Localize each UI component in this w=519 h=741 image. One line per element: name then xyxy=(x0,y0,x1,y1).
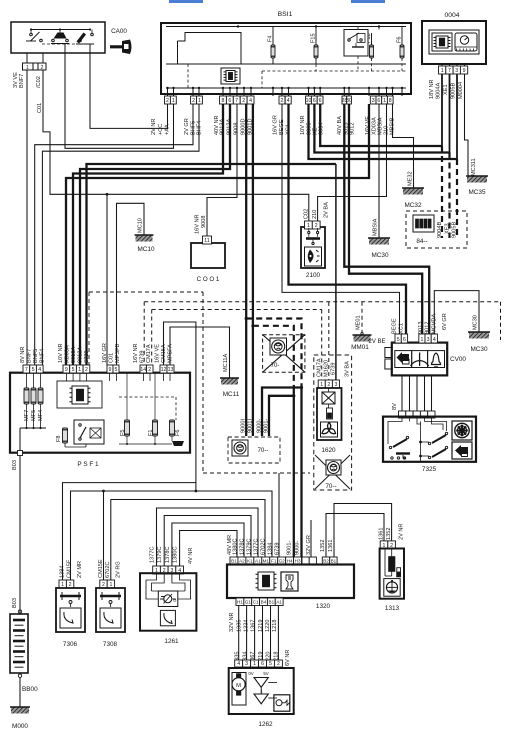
PSF1 fuse MF7 xyxy=(24,388,29,404)
PSF1 internal bus xyxy=(20,427,46,429)
svg-text:9005B: 9005B xyxy=(452,222,458,238)
svg-text:1: 1 xyxy=(109,582,112,588)
PSF1 pin stubs inside xyxy=(65,373,67,381)
wire 9001D thick xyxy=(252,104,254,436)
svg-text:210: 210 xyxy=(312,210,318,219)
svg-text:6739: 6739 xyxy=(140,351,146,363)
svg-text:9: 9 xyxy=(463,68,466,74)
svg-text:BSI1: BSI1 xyxy=(278,11,293,18)
wire XC1 thick from BSI to CV00 xyxy=(289,104,407,334)
svg-text:1218: 1218 xyxy=(272,620,278,632)
wires 1320 to 1262 xyxy=(238,606,240,661)
svg-text:40V BA: 40V BA xyxy=(337,116,343,135)
wire 9000- solid to 1320 xyxy=(300,386,302,557)
svg-text:2V BE: 2V BE xyxy=(368,339,385,345)
svg-text:9008: 9008 xyxy=(201,216,207,228)
svg-text:MC11A: MC11A xyxy=(223,353,229,372)
svg-text:5V: 5V xyxy=(263,671,268,676)
svg-text:70-: 70- xyxy=(271,363,280,369)
switch contact 1 xyxy=(30,33,33,36)
wire +CC CA00 to BSI xyxy=(90,53,168,128)
svg-text:B2: B2 xyxy=(323,559,329,564)
wire BEGE BSI to CV00 xyxy=(282,104,400,334)
svg-text:7: 7 xyxy=(235,98,238,104)
svg-text:B: B xyxy=(173,598,176,604)
svg-text:1262: 1262 xyxy=(258,721,273,728)
svg-text:6: 6 xyxy=(403,337,406,343)
switch contact 2 xyxy=(52,39,55,42)
7325 icon indicator xyxy=(452,442,472,459)
svg-text:CM15E: CM15E xyxy=(98,559,104,578)
wire 9005 thick to 84 box xyxy=(309,104,458,159)
svg-text:MF5: MF5 xyxy=(31,410,37,421)
1620 ghost feed M1620 xyxy=(328,302,330,380)
svg-text:6: 6 xyxy=(228,98,231,104)
svg-text:B1: B1 xyxy=(231,559,237,564)
ground MC32 xyxy=(403,188,423,195)
wire 6739 thick PSF1 to 1620 xyxy=(87,164,336,365)
clutch switch 1261 xyxy=(153,566,161,574)
svg-text:9: 9 xyxy=(65,367,68,373)
BSI1 connector pins group F xyxy=(306,96,312,104)
1313 sensor icon xyxy=(384,579,400,597)
ghost box 84 xyxy=(406,211,467,248)
7325 icon wheel xyxy=(452,421,472,440)
switch contact 3 xyxy=(79,39,82,42)
svg-text:ME01: ME01 xyxy=(356,315,362,330)
svg-text:1361: 1361 xyxy=(328,540,334,552)
svg-text:M000: M000 xyxy=(12,723,28,730)
ignition switch assembly CA00 xyxy=(11,22,105,53)
svg-text:1379C: 1379C xyxy=(157,547,163,563)
svg-text:P S F 1: P S F 1 xyxy=(77,461,99,468)
svg-text:5: 5 xyxy=(397,337,400,343)
ground M000 xyxy=(11,707,29,714)
svg-text:10: 10 xyxy=(306,98,312,104)
svg-text:0004: 0004 xyxy=(444,12,459,19)
1261 icon curve xyxy=(160,610,175,625)
wire +AA CA00 to BSI xyxy=(65,53,174,148)
PSF1 fuse F1 xyxy=(153,420,158,436)
svg-text:11: 11 xyxy=(204,238,209,244)
BSI1 relay xyxy=(344,30,368,57)
svg-text:F8: F8 xyxy=(56,435,62,442)
wire 1378C net xyxy=(172,523,244,566)
wire 6702C net 7308 to 1320 xyxy=(111,500,265,581)
svg-text:CM17A: CM17A xyxy=(146,344,152,363)
svg-text:F1: F1 xyxy=(148,429,154,436)
7325 contacts xyxy=(393,439,407,447)
svg-text:30: 30 xyxy=(346,98,352,104)
svg-text:4: 4 xyxy=(38,367,41,373)
1320 bottom pins xyxy=(236,598,244,606)
svg-text:9013A: 9013A xyxy=(71,347,77,363)
wire 6739 ghost to 1320 xyxy=(278,473,280,557)
svg-text:6V GR: 6V GR xyxy=(442,313,448,330)
svg-text:14: 14 xyxy=(140,367,146,373)
1620 icon X xyxy=(322,392,335,404)
wire 9013 thick BSI to CV00 xyxy=(344,104,429,334)
svg-text:16V GR: 16V GR xyxy=(273,115,279,135)
svg-text:MM01: MM01 xyxy=(351,344,369,351)
1313 resistor xyxy=(384,549,386,577)
svg-text:1379C: 1379C xyxy=(247,539,253,555)
svg-text:2: 2 xyxy=(85,367,88,373)
svg-text:F6: F6 xyxy=(175,429,181,436)
2100 internal bar xyxy=(306,237,320,240)
wire 9008 BSI to C001 xyxy=(207,104,237,236)
wire 9001- solid to 1320 xyxy=(293,386,295,557)
wire 9012A thick BSI to PSF1 xyxy=(80,104,230,365)
BSI1 chip icon xyxy=(221,68,240,84)
1262 sensor icon xyxy=(274,695,290,711)
svg-text:+CC: +CC xyxy=(158,124,164,135)
svg-text:MC35: MC35 xyxy=(468,189,485,196)
diagnostic socket 2100 xyxy=(301,227,325,268)
1262 diodes xyxy=(254,678,268,688)
ground MC11 xyxy=(221,378,238,385)
svg-text:6739: 6739 xyxy=(275,543,281,555)
BSI1 connector pins group G xyxy=(342,96,347,104)
svg-text:CM15A: CM15A xyxy=(161,344,167,363)
svg-text:MC311: MC311 xyxy=(471,158,477,176)
svg-text:7: 7 xyxy=(25,367,28,373)
wire MPSFB to MC10 xyxy=(117,203,145,365)
svg-text:3: 3 xyxy=(455,68,458,74)
svg-text:9004A: 9004A xyxy=(436,83,442,99)
svg-text:6702C: 6702C xyxy=(261,539,267,555)
CV00 pins xyxy=(395,334,401,343)
svg-text:32V NR: 32V NR xyxy=(229,612,235,632)
BSI1 inner rail xyxy=(166,63,406,65)
svg-text:1352: 1352 xyxy=(320,540,326,552)
1262 motor xyxy=(232,673,246,706)
svg-text:2V GR: 2V GR xyxy=(184,118,190,135)
7325 pins xyxy=(399,411,406,418)
CA00 internal rail xyxy=(31,29,90,31)
ghost wire XE3 dashed xyxy=(448,153,450,239)
svg-text:/C02: /C02 xyxy=(36,76,42,88)
ground MC30 right xyxy=(469,332,489,339)
component 1620 xyxy=(318,380,325,388)
svg-text:A1: A1 xyxy=(276,600,282,605)
PSF1 inner dashed xyxy=(119,396,176,398)
svg-text:9012: 9012 xyxy=(350,123,356,135)
svg-text:1384: 1384 xyxy=(60,566,66,578)
wire MBSIB to MC32 xyxy=(393,104,414,188)
svg-text:18V NR: 18V NR xyxy=(429,79,435,99)
wire 9000D thick xyxy=(245,104,247,436)
svg-text:1377C: 1377C xyxy=(150,547,156,563)
ghost dashed drop 6739 to PSF1 xyxy=(143,302,145,364)
svg-text:2: 2 xyxy=(102,582,105,588)
svg-text:MF7: MF7 xyxy=(24,410,30,421)
7325 inner feeds xyxy=(388,417,402,444)
BSI1 pin bus xyxy=(166,87,406,89)
svg-text:CV00: CV00 xyxy=(450,356,466,363)
branch 9000- stub xyxy=(262,388,302,437)
ignition module 1313 xyxy=(380,541,388,549)
svg-text:9000-: 9000- xyxy=(295,541,301,555)
BSI1 connector pins group B xyxy=(191,96,197,104)
ghost crossed option lower xyxy=(315,455,350,489)
svg-text:2V MR: 2V MR xyxy=(77,561,83,578)
PSF1 fuse F5 xyxy=(125,420,130,436)
ghost dashed CM17A to 1620 xyxy=(152,309,322,311)
svg-text:16V NR: 16V NR xyxy=(133,343,139,363)
svg-text:2: 2 xyxy=(281,98,284,104)
svg-text:MPSFA: MPSFA xyxy=(168,344,174,363)
svg-text:BB00: BB00 xyxy=(22,686,38,693)
svg-text:1380C: 1380C xyxy=(233,539,239,555)
svg-text:CM15F: CM15F xyxy=(67,559,73,578)
wire CA00 pin1 drop xyxy=(26,53,28,63)
svg-text:1: 1 xyxy=(383,98,386,104)
svg-text:16V VE: 16V VE xyxy=(155,344,161,363)
svg-text:8: 8 xyxy=(222,98,225,104)
svg-text:2V NR: 2V NR xyxy=(399,524,405,540)
svg-text:1335: 1335 xyxy=(237,620,243,632)
battery BB00 xyxy=(18,610,21,613)
PSF1 inner module xyxy=(57,381,102,408)
wire BHF5 BSI to PSF1 xyxy=(35,104,193,365)
wire C01 drop to PSF1 xyxy=(106,194,108,365)
svg-text:MC10: MC10 xyxy=(137,246,154,253)
svg-text:M: M xyxy=(236,683,241,689)
BSI1 pin stubs xyxy=(167,88,169,96)
horn 7306 xyxy=(59,580,66,588)
svg-text:BEGE: BEGE xyxy=(392,318,398,334)
svg-text:BNF7: BNF7 xyxy=(27,349,33,363)
svg-text:1261: 1261 xyxy=(164,638,179,645)
svg-text:70--: 70-- xyxy=(325,483,336,490)
BSI1 inner top rail xyxy=(166,26,406,28)
wire BB00 to ground xyxy=(19,677,21,707)
svg-text:1: 1 xyxy=(78,367,81,373)
svg-text:B4: B4 xyxy=(261,600,267,605)
svg-text:MC32: MC32 xyxy=(404,202,421,209)
svg-text:1313: 1313 xyxy=(385,605,400,612)
wire XE thick to 84 box xyxy=(314,104,449,153)
svg-text:5: 5 xyxy=(115,367,118,373)
svg-text:M1: M1 xyxy=(263,559,270,564)
wire 9012 thick BSI to CV00 xyxy=(349,104,422,334)
svg-text:6: 6 xyxy=(377,98,380,104)
wire 1361 to 1313 xyxy=(334,504,392,558)
2100 gauge icon xyxy=(305,247,322,266)
PSF1 pins group 5 xyxy=(160,365,167,373)
svg-text:9001-: 9001- xyxy=(287,541,293,555)
branch 9001- stub xyxy=(269,396,294,436)
wire M0004 to MC35 xyxy=(465,74,469,176)
svg-text:1377C: 1377C xyxy=(254,539,260,555)
svg-text:1378C: 1378C xyxy=(165,547,171,563)
svg-text:8V NR: 8V NR xyxy=(20,347,26,363)
svg-text:9001I: 9001I xyxy=(248,419,254,433)
svg-text:6: 6 xyxy=(313,98,316,104)
svg-text:2: 2 xyxy=(277,661,280,667)
svg-text:9001-: 9001- xyxy=(264,419,270,433)
wire 1379C net xyxy=(164,516,251,567)
wire 0004 pin7 XE1 xyxy=(449,74,451,153)
wire CM15 net horns xyxy=(71,491,273,580)
svg-text:MC10: MC10 xyxy=(138,218,144,233)
svg-text:1352: 1352 xyxy=(386,528,392,540)
ghost dashed around 1620 xyxy=(314,355,352,490)
svg-text:XC1: XC1 xyxy=(399,323,405,334)
wires CV00 to 7325 xyxy=(401,375,403,411)
ground MC35 xyxy=(467,176,487,183)
ground MC10 xyxy=(136,235,153,242)
svg-text:1320: 1320 xyxy=(316,603,331,610)
svg-text:2: 2 xyxy=(242,98,245,104)
svg-text:2: 2 xyxy=(166,98,169,104)
svg-text:BNF7: BNF7 xyxy=(19,74,25,88)
svg-text:1380C: 1380C xyxy=(173,547,179,563)
wire 0004 pin1 9004A xyxy=(441,74,443,146)
svg-text:2V RG: 2V RG xyxy=(116,561,122,578)
dashed actuator link in CA00 xyxy=(42,43,88,45)
component CV00 com unit xyxy=(392,343,447,376)
svg-text:CM17A: CM17A xyxy=(316,358,322,377)
svg-text:B03: B03 xyxy=(12,598,18,608)
svg-text:1367: 1367 xyxy=(251,620,257,632)
wire 0004 pin3 9005B xyxy=(456,74,458,159)
svg-text:3: 3 xyxy=(245,661,248,667)
svg-text:F1: F1 xyxy=(271,559,277,564)
svg-text:8: 8 xyxy=(389,98,392,104)
wire CM15E drop 7308 xyxy=(103,491,105,580)
svg-text:0V: 0V xyxy=(248,671,253,676)
1620 icon fan xyxy=(321,422,338,437)
BSI1 internal dashed links xyxy=(187,64,189,88)
svg-text:7308: 7308 xyxy=(103,641,118,648)
svg-text:10V NR: 10V NR xyxy=(300,115,306,135)
svg-text:F5: F5 xyxy=(120,429,126,436)
svg-text:B1: B1 xyxy=(331,559,337,564)
svg-text:MC30: MC30 xyxy=(371,252,388,259)
svg-text:8V: 8V xyxy=(392,403,398,410)
wire MPSFA PSF1 to MC11 xyxy=(170,327,230,378)
PSF1 pins group 2 xyxy=(63,365,70,373)
CV00 icon bell xyxy=(428,351,445,368)
svg-text:1384: 1384 xyxy=(268,543,274,555)
1320 injector icon xyxy=(281,572,298,591)
svg-text:B1: B1 xyxy=(269,600,275,605)
svg-text:MC30: MC30 xyxy=(470,346,487,353)
svg-text:B03: B03 xyxy=(12,460,18,470)
BSI1 inner module box xyxy=(178,33,242,65)
wire 1377C net xyxy=(157,508,259,566)
horn 7308 xyxy=(100,580,107,588)
ghost option box mid xyxy=(228,437,280,463)
svg-text:XE1: XE1 xyxy=(443,84,449,95)
svg-text:ME32: ME32 xyxy=(408,171,414,186)
wire 32V GR stub xyxy=(310,520,312,557)
svg-text:9005B: 9005B xyxy=(451,83,457,99)
svg-text:4: 4 xyxy=(287,98,290,104)
wire 1384 net horn 7306 xyxy=(63,483,196,580)
ghost lead to MM01 xyxy=(361,302,363,332)
ghost outline third dashed xyxy=(144,301,500,303)
svg-text:2: 2 xyxy=(69,582,72,588)
svg-text:1: 1 xyxy=(172,98,175,104)
svg-text:1620: 1620 xyxy=(321,447,336,454)
key symbol xyxy=(110,40,132,55)
ghost wire 9005B dashed xyxy=(456,159,458,238)
svg-text:1378C: 1378C xyxy=(240,539,246,555)
PSF1 fuse MF4 xyxy=(38,388,43,404)
svg-text:1361: 1361 xyxy=(379,528,385,540)
wire MCVDA to MC30 right xyxy=(434,291,479,334)
svg-text:1: 1 xyxy=(253,661,256,667)
wire 1352 to 1313 xyxy=(326,514,384,558)
svg-text:2: 2 xyxy=(192,98,195,104)
84 display icon xyxy=(413,215,434,232)
svg-text:32V GR: 32V GR xyxy=(306,535,312,555)
svg-text:7325: 7325 xyxy=(422,466,437,473)
1261 inner wiring xyxy=(146,573,158,599)
wire CM15A PSF1 net xyxy=(164,322,196,491)
wire CA00 internal +CC xyxy=(89,44,91,53)
svg-text:2V BA: 2V BA xyxy=(324,202,330,218)
svg-text:C O O 1: C O O 1 xyxy=(197,276,220,283)
pump assembly 1262 xyxy=(235,660,243,667)
svg-text:3: 3 xyxy=(427,337,430,343)
BSI1 connector pin BEGE xyxy=(279,96,285,104)
BSI1 connector pin XC1 xyxy=(285,96,291,104)
wire CA00 pin2 drop xyxy=(42,53,44,63)
wire BHF4 BSI to PSF1 xyxy=(42,104,199,365)
svg-text:1: 1 xyxy=(198,98,201,104)
svg-text:3: 3 xyxy=(372,98,375,104)
wire 2102 BSI to 2100 xyxy=(318,104,387,221)
svg-text:70--: 70-- xyxy=(257,447,268,454)
svg-text:A2: A2 xyxy=(239,559,245,564)
connector C001 xyxy=(191,243,225,268)
PSF1 fuse MF5 xyxy=(31,388,36,404)
svg-text:12: 12 xyxy=(161,367,167,373)
svg-text:BNF5: BNF5 xyxy=(33,349,39,363)
svg-text:BNF4: BNF4 xyxy=(40,349,46,363)
svg-text:MBSIA: MBSIA xyxy=(373,218,379,236)
svg-text:7: 7 xyxy=(448,68,451,74)
ECU 1320 xyxy=(230,557,238,565)
BSI1 connector pins group H xyxy=(370,96,376,104)
svg-text:4: 4 xyxy=(237,661,240,667)
svg-text:2100: 2100 xyxy=(306,272,321,279)
wire CA00 internal +AA xyxy=(64,44,66,54)
svg-text:1: 1 xyxy=(61,582,64,588)
wire MBSIA to ground MC30 xyxy=(378,104,380,238)
wire 9004 thick to 84 box xyxy=(320,104,442,146)
svg-text:2V NR: 2V NR xyxy=(151,119,157,135)
svg-text:MC11: MC11 xyxy=(223,391,240,398)
svg-text:10V NR: 10V NR xyxy=(58,343,64,363)
svg-text:H1: H1 xyxy=(237,600,243,605)
svg-text:9012: 9012 xyxy=(425,322,431,334)
svg-text:C01: C01 xyxy=(37,103,43,113)
svg-text:MF4: MF4 xyxy=(38,410,44,421)
svg-text:5: 5 xyxy=(269,661,272,667)
svg-text:5: 5 xyxy=(72,367,75,373)
PSF1 pins group 1 xyxy=(23,365,30,373)
ghost outline main dashed box xyxy=(89,291,203,293)
svg-text:2: 2 xyxy=(148,367,151,373)
wire C01/C02 net xyxy=(43,70,309,221)
svg-text:16V GR: 16V GR xyxy=(102,343,108,363)
svg-text:7306: 7306 xyxy=(63,641,78,648)
